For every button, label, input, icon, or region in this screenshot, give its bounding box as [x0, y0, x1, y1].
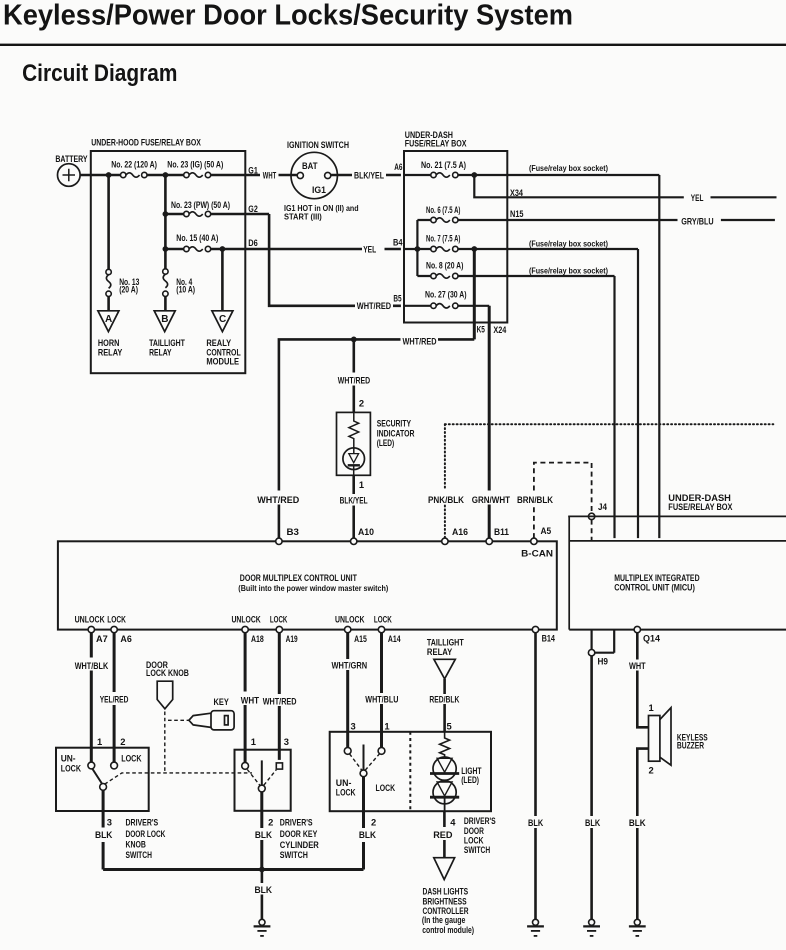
svg-text:YEL: YEL: [363, 244, 376, 255]
svg-text:KEY: KEY: [214, 696, 230, 707]
svg-text:(Fuse/relay box socket): (Fuse/relay box socket): [529, 267, 608, 276]
svg-text:LOCK: LOCK: [121, 752, 141, 763]
svg-text:LOCK: LOCK: [374, 614, 392, 625]
svg-text:B5: B5: [393, 293, 401, 304]
svg-text:UNLOCK: UNLOCK: [335, 614, 365, 625]
svg-text:2: 2: [268, 816, 273, 827]
svg-text:2: 2: [649, 765, 654, 776]
svg-text:No. 23 (IG) (50 A): No. 23 (IG) (50 A): [167, 159, 223, 170]
svg-text:LOCK: LOCK: [376, 782, 396, 793]
svg-text:(LED): (LED): [377, 437, 395, 448]
svg-text:UNLOCK: UNLOCK: [75, 614, 105, 625]
svg-text:GRN/WHT: GRN/WHT: [472, 494, 510, 505]
svg-text:PNK/BLK: PNK/BLK: [428, 494, 464, 505]
svg-text:WHT/RED: WHT/RED: [403, 335, 437, 346]
svg-text:FUSE/RELAY BOX: FUSE/RELAY BOX: [668, 501, 733, 512]
svg-text:SWITCH: SWITCH: [126, 849, 153, 860]
svg-text:A: A: [105, 314, 112, 325]
svg-text:N15: N15: [510, 208, 524, 219]
svg-text:A10: A10: [358, 526, 374, 537]
svg-text:DOOR LOCK: DOOR LOCK: [126, 828, 166, 839]
svg-text:UNDER-HOOD FUSE/RELAY BOX: UNDER-HOOD FUSE/RELAY BOX: [91, 137, 201, 148]
svg-text:DOOR MULTIPLEX CONTROL UNIT: DOOR MULTIPLEX CONTROL UNIT: [240, 572, 357, 583]
svg-text:BLK: BLK: [95, 829, 113, 840]
svg-text:No. 27 (30 A): No. 27 (30 A): [425, 289, 467, 300]
svg-text:Keyless/Power Door Locks/Secur: Keyless/Power Door Locks/Security System: [3, 0, 573, 32]
svg-text:BLK: BLK: [629, 817, 646, 828]
svg-text:H9: H9: [598, 656, 609, 667]
svg-text:BATTERY: BATTERY: [55, 153, 88, 164]
svg-text:BRN/BLK: BRN/BLK: [517, 494, 553, 505]
svg-text:C: C: [219, 314, 226, 325]
svg-text:LOCK: LOCK: [107, 614, 126, 625]
svg-text:WHT: WHT: [629, 660, 646, 671]
svg-text:A14: A14: [388, 633, 401, 644]
svg-text:KNOB: KNOB: [126, 839, 146, 850]
svg-text:WHT/RED: WHT/RED: [357, 300, 391, 311]
svg-text:B3: B3: [287, 526, 299, 537]
svg-text:1: 1: [251, 736, 256, 747]
svg-text:YEL: YEL: [691, 192, 704, 203]
svg-text:D6: D6: [248, 237, 257, 248]
svg-text:(20 A): (20 A): [119, 284, 138, 295]
svg-text:1: 1: [384, 720, 389, 731]
svg-text:1: 1: [97, 736, 102, 747]
svg-text:3: 3: [284, 736, 289, 747]
svg-text:RED/BLK: RED/BLK: [429, 694, 459, 705]
svg-text:RELAY: RELAY: [98, 346, 123, 357]
svg-text:WHT: WHT: [241, 695, 260, 706]
svg-text:WHT/RED: WHT/RED: [257, 494, 299, 505]
svg-text:YEL/RED: YEL/RED: [100, 694, 129, 705]
svg-text:WHT/RED: WHT/RED: [338, 374, 371, 385]
svg-text:MODULE: MODULE: [206, 355, 239, 366]
svg-text:X24: X24: [493, 324, 507, 335]
svg-text:3: 3: [351, 720, 356, 731]
svg-text:B11: B11: [494, 526, 509, 537]
svg-text:B: B: [161, 314, 168, 325]
svg-text:J4: J4: [598, 501, 608, 512]
svg-text:SWITCH: SWITCH: [280, 849, 308, 860]
svg-text:3: 3: [107, 816, 112, 827]
svg-text:No. 21 (7.5 A): No. 21 (7.5 A): [421, 159, 466, 170]
svg-text:Q14: Q14: [643, 632, 661, 643]
svg-text:BLK/YEL: BLK/YEL: [340, 494, 368, 505]
svg-text:BUZZER: BUZZER: [677, 739, 704, 750]
svg-text:DRIVER'S: DRIVER'S: [126, 817, 159, 828]
svg-text:A18: A18: [251, 633, 264, 644]
svg-text:No. 6 (7.5 A): No. 6 (7.5 A): [426, 204, 460, 215]
svg-text:START (III): START (III): [284, 212, 322, 221]
svg-text:5: 5: [447, 720, 452, 731]
svg-text:1: 1: [649, 702, 654, 713]
svg-text:G1: G1: [248, 164, 257, 175]
svg-text:RELAY: RELAY: [149, 346, 172, 357]
svg-text:GRY/BLU: GRY/BLU: [681, 215, 713, 226]
svg-text:A19: A19: [286, 633, 298, 644]
svg-text:(10 A): (10 A): [176, 284, 195, 295]
svg-text:LOCK: LOCK: [61, 762, 81, 773]
svg-text:No. 22 (120 A): No. 22 (120 A): [111, 159, 157, 170]
svg-text:BLK: BLK: [255, 884, 273, 895]
svg-text:IG1: IG1: [312, 184, 326, 195]
svg-text:(Built into the power window m: (Built into the power window master swit…: [238, 584, 388, 593]
svg-text:WHT/GRN: WHT/GRN: [332, 659, 368, 670]
svg-text:Circuit Diagram: Circuit Diagram: [22, 60, 177, 87]
svg-text:A6: A6: [120, 633, 131, 644]
svg-text:control module): control module): [422, 924, 474, 935]
svg-text:4: 4: [450, 816, 456, 827]
svg-text:1: 1: [359, 479, 364, 490]
svg-text:WHT: WHT: [263, 170, 277, 181]
svg-text:WHT/BLU: WHT/BLU: [365, 694, 398, 705]
svg-text:A6: A6: [394, 161, 402, 172]
svg-text:RED: RED: [433, 829, 453, 840]
svg-text:WHT/BLK: WHT/BLK: [75, 660, 109, 671]
svg-text:No. 23 (PW) (50 A): No. 23 (PW) (50 A): [171, 199, 230, 210]
svg-text:LOCK: LOCK: [270, 614, 288, 625]
svg-text:A5: A5: [541, 525, 552, 536]
svg-text:2: 2: [371, 816, 376, 827]
svg-text:BLK: BLK: [359, 829, 376, 840]
svg-text:BLK: BLK: [528, 817, 543, 828]
svg-text:A16: A16: [452, 526, 468, 537]
svg-text:BLK: BLK: [255, 829, 272, 840]
svg-text:DRIVER'S: DRIVER'S: [280, 817, 313, 828]
svg-text:B4: B4: [393, 237, 403, 248]
svg-text:G2: G2: [248, 203, 257, 214]
svg-text:X34: X34: [510, 187, 524, 198]
svg-text:K5: K5: [477, 324, 485, 335]
svg-text:RELAY: RELAY: [427, 646, 453, 657]
svg-text:No. 15 (40 A): No. 15 (40 A): [176, 232, 218, 243]
svg-text:No. 8 (20 A): No. 8 (20 A): [426, 260, 463, 271]
svg-text:LOCK: LOCK: [336, 787, 356, 798]
svg-text:IGNITION SWITCH: IGNITION SWITCH: [287, 139, 349, 150]
svg-text:2: 2: [120, 736, 125, 747]
svg-text:BAT: BAT: [302, 160, 318, 171]
svg-text:WHT/RED: WHT/RED: [263, 695, 297, 706]
svg-text:BLK/YEL: BLK/YEL: [354, 170, 384, 181]
svg-text:A7: A7: [96, 633, 108, 644]
svg-text:BLK: BLK: [585, 817, 600, 828]
svg-text:A15: A15: [354, 633, 367, 644]
svg-text:(Fuse/relay box socket): (Fuse/relay box socket): [529, 164, 608, 173]
svg-text:B-CAN: B-CAN: [521, 548, 553, 559]
svg-text:2: 2: [359, 398, 364, 409]
svg-text:(Fuse/relay box socket): (Fuse/relay box socket): [529, 239, 608, 248]
svg-text:UNLOCK: UNLOCK: [232, 614, 261, 625]
svg-text:DOOR KEY: DOOR KEY: [280, 828, 318, 839]
svg-text:B14: B14: [542, 632, 556, 643]
svg-text:FUSE/RELAY BOX: FUSE/RELAY BOX: [405, 137, 467, 148]
svg-text:SWITCH: SWITCH: [464, 844, 490, 855]
svg-text:No. 7 (7.5 A): No. 7 (7.5 A): [426, 233, 460, 244]
svg-text:LOCK KNOB: LOCK KNOB: [146, 667, 189, 678]
svg-text:(LED): (LED): [461, 774, 479, 785]
svg-text:CONTROL UNIT (MICU): CONTROL UNIT (MICU): [614, 581, 695, 592]
